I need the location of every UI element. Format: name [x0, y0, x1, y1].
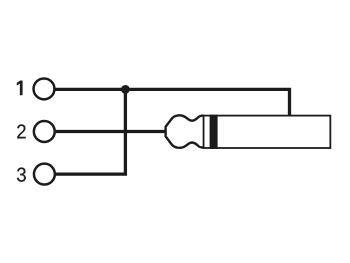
jack plug barrel (sleeve) — [204, 116, 331, 148]
wire — [55, 89, 290, 116]
wire — [56, 130, 166, 133]
terminal circle 3 — [34, 164, 55, 185]
jack plug tip — [166, 115, 204, 147]
node junction dot — [121, 85, 130, 94]
jack plug insulator band — [210, 115, 218, 149]
label 1 — [17, 81, 22, 95]
terminal circle 2 — [34, 121, 55, 142]
label 3 — [17, 168, 26, 182]
label 2 — [17, 124, 25, 138]
terminal circle 1 — [34, 78, 55, 99]
wire — [56, 89, 126, 174]
